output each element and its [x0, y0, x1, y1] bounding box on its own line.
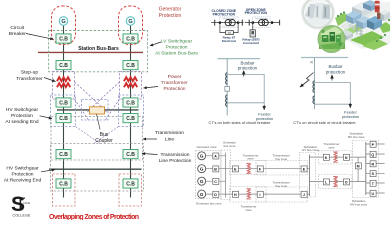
trees row [337, 11, 390, 42]
svg-text:Breaker: Breaker [9, 31, 26, 37]
transmission line protection zone (grey dashed) [51, 117, 143, 161]
LV switchgear protection zone (green dashed) [49, 31, 148, 72]
transformer HV row bottom [333, 176, 338, 186]
pylon 1 [355, 26, 359, 35]
chimney brown small [377, 13, 380, 20]
zone boxes dashed [196, 141, 379, 203]
lawn patch bottom2 [362, 39, 388, 50]
BOTTOM RIGHT ZONES DIAGRAM [206, 142, 385, 198]
lawn patch bottom [350, 31, 384, 46]
svg-text:LV Switchgear: LV Switchgear [161, 38, 193, 44]
HV switchgear sending zone column2 (blue dashed) [119, 95, 144, 127]
svg-text:K: K [325, 156, 328, 160]
row4 feeder wire [226, 193, 310, 195]
bus tie wire [357, 157, 359, 182]
svg-text:J: J [303, 193, 305, 197]
feeder breaker S [370, 171, 376, 177]
substation HV bus zone box [300, 153, 316, 198]
wire column1 CB3 to HV bus and CB4 [63, 107, 65, 114]
closed zone left bus tick [214, 20, 216, 26]
svg-text:At Station Bus-Bars: At Station Bus-Bars [155, 50, 198, 56]
svg-text:R: R [311, 61, 314, 65]
svg-text:protection: protection [342, 114, 360, 119]
svg-text:MV bus zone: MV bus zone [348, 135, 365, 139]
breaker J at HV bus row4 [301, 191, 307, 197]
svg-text:protection: protection [238, 66, 258, 71]
closed zone wire [211, 22, 243, 24]
industrial hall white [352, 2, 372, 17]
left CT taps loop [227, 75, 264, 110]
svg-text:B: B [214, 168, 217, 172]
lawn patch right [379, 22, 390, 33]
transformer zone 2 extension toward bus coupler [87, 82, 120, 120]
svg-text:Step-up: Step-up [21, 70, 38, 76]
svg-text:A: A [214, 155, 217, 159]
substation MV bus zone box [353, 141, 379, 198]
wire column2 G to CB1 [130, 26, 132, 34]
generator G1 [59, 17, 68, 26]
wire column1 CB5 to receiving bus [63, 159, 65, 179]
zone labels [196, 132, 367, 212]
svg-text:Line: Line [165, 136, 175, 142]
step-up transformer T2 winding zigzag [124, 77, 137, 87]
open zone left bus tick [248, 20, 250, 26]
svg-text:Station Bus-Bars: Station Bus-Bars [78, 46, 119, 52]
small tanks [349, 24, 351, 28]
svg-text:Generator: Generator [159, 7, 182, 13]
magnifier circle switchroom [303, 0, 333, 28]
svg-text:H: H [234, 193, 237, 197]
svg-text:CT's on circuit side of circui: CT's on circuit side of circuit breaker [293, 120, 356, 125]
breaker L HV row bottom [323, 179, 329, 185]
arrow LV switchgear [150, 42, 161, 46]
HV switchgear receiving zone (grey dashed) [51, 144, 144, 192]
svg-text:HV bus zone: HV bus zone [302, 148, 319, 152]
arrow transmission line [143, 138, 157, 140]
svg-text:R: R [371, 162, 374, 166]
breaker C [213, 178, 219, 184]
wire column2 CB3 to HV bus and CB4 [130, 107, 132, 114]
svg-text:G: G [200, 179, 204, 184]
breaker CB3 column2 [123, 98, 138, 107]
bus coupler leader line [97, 114, 101, 130]
lawn patch left [335, 13, 352, 26]
breaker CB2 column2 [123, 61, 138, 70]
svg-text:Transmission: Transmission [161, 152, 190, 158]
HV switchgear sending zone column1 (blue dashed) [51, 95, 76, 127]
svg-text:zone: zone [245, 208, 252, 212]
HV receiving bus conductor [49, 168, 142, 170]
breaker H row4 [233, 191, 239, 197]
breaker CB4 column1 [56, 114, 71, 123]
feeder breaker T [370, 180, 376, 186]
svg-text:line zone: line zone [276, 184, 288, 188]
grey shed [341, 30, 353, 40]
feeder breaker R [370, 161, 376, 167]
breaker CB1 column1 [56, 34, 71, 43]
svg-text:At Receiving End: At Receiving End [4, 178, 42, 184]
right busbar protection arrow [331, 75, 333, 81]
arrow HV switchgear receiving [41, 170, 55, 172]
generator G3 [198, 177, 206, 185]
bus coupler overlap zone (blue dashed) [82, 100, 109, 121]
breaker F row2 [257, 166, 263, 172]
station bus-bars conductor [38, 51, 143, 53]
right transformer zone box top [319, 151, 353, 165]
substation HV bus [309, 155, 311, 197]
svg-text:HV Switchgear: HV Switchgear [6, 166, 39, 172]
transformer protection zone 1 (purple dashed) [53, 72, 75, 100]
feeder stub wires [366, 143, 385, 145]
open zone relay drop wire [252, 23, 254, 30]
svg-text:Transformer: Transformer [16, 76, 43, 82]
wire column1 CB2 to transformer [63, 70, 65, 98]
svg-text:Generator bus zone: Generator bus zone [196, 202, 222, 206]
closed zone CT dot left [219, 21, 222, 24]
svg-text:MV bus zone: MV bus zone [350, 202, 367, 206]
HV sending bus conductor [57, 109, 139, 111]
right CT coil upper [313, 81, 315, 93]
right feeder protection arrow [349, 103, 351, 108]
feeder breaker P [370, 141, 376, 147]
breaker CB4 column2 [123, 114, 138, 123]
magnifier circle green equipment [318, 26, 344, 52]
transformer zone box row4 [230, 187, 267, 203]
breaker CB5 column2 [123, 150, 138, 159]
svg-text:Protection: Protection [159, 13, 182, 19]
row2 feeder wire [226, 168, 310, 170]
svg-text:M: M [357, 165, 360, 169]
svg-text:C: C [214, 180, 217, 184]
feeder breaker U [370, 190, 376, 196]
breaker E2 at HV bus row2 [301, 166, 307, 172]
blue building right [367, 16, 382, 30]
wire G1 to bus [206, 155, 226, 157]
svg-text:CT's on both sides of circuit: CT's on both sides of circuit breaker [209, 120, 272, 125]
svg-text:G: G [200, 154, 204, 159]
svg-text:Connected: Connected [243, 41, 259, 45]
LEFT DIAGRAM [38, 26, 143, 198]
svg-text:G: G [200, 167, 204, 172]
breaker D [213, 191, 219, 197]
open zone wire [245, 22, 280, 24]
svg-text:U: U [371, 192, 374, 196]
svg-text:Line Protection: Line Protection [159, 158, 192, 164]
open zone earth-fault relay box [250, 30, 255, 37]
svg-text:Transformer: Transformer [161, 80, 188, 86]
transformer row4 [246, 189, 251, 199]
wire column1 transmission line [63, 123, 65, 150]
left circuit breaker square [225, 87, 230, 92]
road band [340, 8, 380, 30]
svg-text:HV Switchgear: HV Switchgear [6, 107, 39, 113]
svg-text:Circuit: Circuit [10, 25, 24, 31]
wire column1 G to CB1 [63, 26, 65, 34]
svg-text:D: D [214, 193, 217, 197]
open zone CT boundary box [253, 17, 271, 27]
blue building mid-left [346, 11, 361, 24]
breaker CB1 column2 [123, 34, 138, 43]
svg-text:PROTECTION: PROTECTION [213, 12, 236, 16]
closed zone transformer circles [225, 20, 231, 26]
transformer zone box row2 [230, 161, 267, 175]
right CT taps loop [315, 83, 351, 108]
generator bus zone box [221, 150, 231, 200]
generator G4 [198, 190, 206, 198]
right feeder vertical wire [314, 58, 316, 110]
transmission line zone box row2 [256, 161, 308, 176]
step-up transformer T1 winding zigzag [57, 77, 70, 87]
svg-text:Busbar: Busbar [241, 60, 255, 65]
college logo ST [11, 193, 31, 217]
svg-text:protection: protection [326, 69, 346, 74]
lawn strip mid [344, 22, 368, 34]
right busbar conductor [301, 57, 348, 59]
left feeder vertical wire [226, 59, 228, 116]
svg-text:Q: Q [371, 153, 374, 157]
breaker CB5 column1 [56, 150, 71, 159]
pylon 2 [359, 29, 363, 38]
generator bus [225, 153, 227, 198]
svg-text:Overlapping Zones of Protectio: Overlapping Zones of Protection [49, 214, 139, 220]
breaker M bus tie [355, 163, 361, 169]
arrow step-up transformer [44, 78, 56, 82]
svg-text:zone: zone [328, 145, 335, 149]
open zone transformer circles [259, 20, 265, 26]
closed zone CT boundary box [220, 17, 239, 27]
generator protection zone 2 (red dashed) [119, 6, 143, 45]
transmission line zone box row4 [256, 187, 308, 202]
svg-text:Protection: Protection [165, 44, 187, 50]
transformer row2 [246, 163, 251, 173]
generator G2 [198, 165, 206, 173]
svg-text:ANNE: ANNE [23, 201, 30, 205]
chimney stack red [375, 1, 380, 13]
breaker O HV row bottom [344, 179, 350, 185]
transformer HV row top [333, 152, 338, 162]
outgoing feeder zone 1 (red dashed) [53, 174, 76, 206]
svg-text:N: N [345, 156, 348, 160]
feeder breaker Q [370, 151, 376, 157]
closed zone CT dot right [237, 21, 240, 24]
right breaker slash symbol [300, 73, 314, 88]
svg-text:bus zone: bus zone [224, 144, 236, 148]
svg-text:PROTECTION: PROTECTION [245, 11, 268, 15]
left CT coil lower [226, 95, 228, 107]
right CT coil lower [313, 96, 315, 104]
closed zone right bus tick [241, 20, 243, 26]
svg-text:At sending End: At sending End [5, 119, 38, 125]
generator G1 [198, 152, 206, 160]
ISOMETRIC PLANT ILLUSTRATION [301, 0, 390, 52]
arrow power transformer [144, 87, 159, 89]
breaker B [213, 166, 219, 172]
wire column1 CB1 to busbar [63, 43, 65, 61]
svg-text:Transmission: Transmission [155, 130, 184, 136]
svg-text:Protection: Protection [11, 172, 33, 178]
substation MV bus [365, 142, 367, 195]
generator protection zone 1 (red dashed) [52, 6, 76, 45]
breaker CB3 column1 [56, 98, 71, 107]
left busbar protection arrow [243, 71, 245, 77]
svg-text:Generator zone: Generator zone [197, 145, 217, 149]
left busbar conductor [218, 58, 261, 60]
HV row top wire [310, 156, 366, 158]
white building right [379, 10, 390, 21]
svg-text:Protection: Protection [11, 113, 33, 119]
wire column2 below CB6 [130, 188, 132, 198]
svg-text:Protection: Protection [163, 86, 185, 92]
breaker A [213, 153, 219, 159]
closed zone relay 87 box [226, 31, 234, 35]
wire column1 below CB6 [63, 188, 65, 198]
outgoing feeder zone 2 (red dashed) [119, 174, 142, 206]
bus coupler box [90, 107, 105, 114]
svg-text:Busbar: Busbar [329, 64, 343, 69]
arrow transmission line protection [142, 154, 158, 155]
wire column2 CB5 to receiving bus [130, 159, 132, 179]
arrow HV switchgear sending [40, 116, 53, 119]
svg-text:O: O [345, 181, 348, 185]
wire column2 CB2 to transformer [130, 70, 132, 98]
wire G4 row [206, 193, 226, 195]
left CT coil upper [226, 73, 228, 85]
svg-text:G: G [200, 192, 204, 197]
breaker K HV row top [323, 154, 329, 160]
right transformer zone box bottom [319, 175, 353, 189]
wire G3 to bus [206, 180, 226, 182]
transformer protection zone 2 (purple dashed) [120, 72, 142, 100]
wire column2 transmission line [130, 123, 132, 150]
svg-text:Electrical: Electrical [222, 39, 236, 43]
svg-text:COLLEGE: COLLEGE [13, 213, 32, 217]
open zone right bus tick [279, 20, 281, 26]
left feeder protection arrow [263, 105, 265, 110]
open zone CT dot right [271, 21, 274, 24]
breaker I row4 [257, 191, 263, 197]
HV row bottom wire [310, 181, 366, 183]
breaker N HV row top [344, 154, 350, 160]
svg-text:Coupler: Coupler [95, 138, 113, 144]
transformer zone 1 extension toward bus coupler [75, 82, 108, 120]
open zone CT dot [252, 21, 255, 24]
closed zone relay loop [220, 23, 238, 33]
wire column2 CB1 to busbar [130, 43, 132, 61]
svg-text:Power: Power [168, 74, 182, 80]
svg-text:line zone: line zone [276, 157, 288, 161]
breaker CB6 column1 [56, 179, 71, 188]
plant ground plane [335, 2, 390, 49]
svg-text:I: I [260, 193, 261, 197]
generator G2 [126, 17, 135, 26]
breaker CB6 column2 [123, 179, 138, 188]
blue building top [363, 0, 378, 11]
svg-text:zone: zone [247, 157, 254, 161]
transmission zone crossing diagonals [76, 127, 119, 144]
arrow circuit breaker [26, 34, 54, 40]
breaker E row2 [233, 166, 239, 172]
blue building center [356, 16, 371, 29]
generator zone box [196, 151, 221, 199]
breaker CB2 column1 [56, 61, 71, 70]
wire G2 row [206, 168, 226, 170]
